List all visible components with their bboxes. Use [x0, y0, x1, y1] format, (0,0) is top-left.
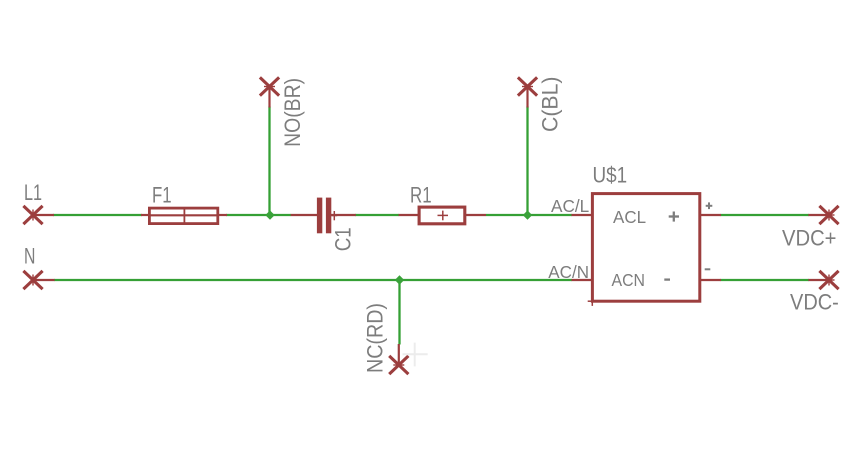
net stub X N: [23, 271, 54, 289]
svg-text:ACN: ACN: [612, 270, 646, 290]
net stub X NC(RD): [389, 344, 408, 374]
svg-text:NC(RD): NC(RD): [363, 303, 388, 373]
svg-text:L1: L1: [24, 180, 42, 205]
origin cross near NC(RD): [403, 343, 428, 367]
junction node AC/N at NC(RD) branch: [395, 275, 404, 284]
net stub X L1: [23, 206, 54, 224]
pin name - inside: [664, 278, 670, 280]
svg-text:VDC+: VDC+: [782, 226, 837, 251]
wire net AC/L segment C1-to-R1: [355, 214, 399, 216]
svg-text:C1: C1: [331, 227, 356, 251]
svg-text:F1: F1: [152, 183, 172, 208]
fuse F1: [141, 208, 227, 224]
svg-text:NO(BR): NO(BR): [280, 78, 305, 147]
pin label - outside: [705, 268, 711, 270]
svg-text:U$1: U$1: [593, 163, 628, 188]
wire net VDC-: [721, 279, 810, 281]
pin label + outside: [706, 202, 713, 209]
wire net AC/L segment F1-to-C1: [226, 214, 291, 216]
pin name + inside: [669, 212, 679, 222]
net stub X NO(BR): [260, 77, 279, 107]
net stub X C(BL): [518, 77, 537, 107]
capacitor C1: [291, 198, 356, 234]
svg-text:AC/N: AC/N: [548, 262, 589, 282]
wire net AC/L segment R1-to-U$1: [486, 214, 572, 216]
net stub X VDC+: [808, 206, 838, 224]
wire net AC/L segment X1-to-F1: [53, 214, 142, 216]
wire net VDC+: [721, 214, 810, 216]
wire net NC(RD) vertical: [398, 279, 400, 345]
resistor R1: [399, 207, 486, 224]
svg-text:ACL: ACL: [613, 207, 646, 227]
svg-text:VDC-: VDC-: [790, 289, 839, 314]
svg-text:C(BL): C(BL): [538, 77, 563, 133]
svg-text:AC/L: AC/L: [551, 196, 589, 216]
wire net C(BL) vertical: [526, 107, 528, 217]
wire net NO(BR) vertical: [268, 107, 270, 217]
wire net AC/N rail: [54, 279, 572, 281]
IC U$1 box: [572, 194, 722, 306]
junction node AC/L at C(BL) branch: [523, 210, 532, 219]
svg-text:R1: R1: [410, 183, 432, 208]
junction node AC/L at F1 branch: [265, 210, 274, 219]
net stub X VDC-: [808, 271, 838, 289]
svg-text:N: N: [24, 243, 35, 268]
